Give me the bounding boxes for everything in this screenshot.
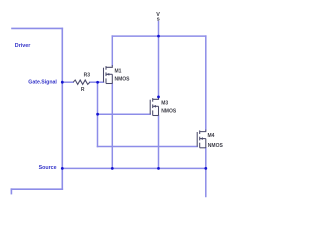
svg-text:M3: M3 [161, 100, 168, 106]
junction gate branch [96, 81, 99, 84]
wire Vs to M3 drain [158, 22, 160, 98]
junction M3 drain [157, 96, 160, 99]
svg-text:NMOS: NMOS [208, 143, 224, 149]
junction Gate_Signal [61, 81, 64, 84]
junction Vs top rail [157, 35, 160, 38]
transistor M4 [197, 130, 206, 148]
svg-text:Driver: Driver [15, 43, 31, 49]
svg-text:M1: M1 [115, 69, 122, 75]
wire M1 source [111, 84, 113, 169]
wire M3 source [158, 116, 160, 169]
wire gate branch vertical [97, 82, 99, 146]
svg-text:NMOS: NMOS [161, 109, 177, 115]
svg-text:Source: Source [39, 165, 57, 171]
wire M1 drain [111, 36, 113, 65]
wire M4 drain [205, 36, 207, 130]
transistor M3 [150, 97, 158, 115]
driver block bottom-left stub wire [10, 189, 12, 193]
wire M4 source bottom stub [205, 168, 207, 196]
bottom Source rail wire [62, 167, 206, 169]
junction M1 source rail [111, 167, 114, 170]
svg-text:R: R [81, 87, 85, 93]
junction M3 source rail [157, 167, 160, 170]
wire to M3 gate [98, 113, 151, 115]
svg-text:R3: R3 [84, 72, 91, 78]
svg-text:M4: M4 [208, 133, 215, 139]
driver block vertical wire [61, 28, 63, 189]
wire to M4 gate [98, 146, 198, 148]
resistor R1 zigzag [73, 80, 90, 84]
driver block top wire [12, 27, 62, 29]
wire M4 source [205, 148, 207, 169]
svg-text:NMOS: NMOS [115, 77, 131, 83]
svg-text:Gate.Signal: Gate.Signal [28, 80, 57, 86]
driver block bottom wire [11, 188, 62, 190]
junction M4 source rail [204, 167, 207, 170]
wire R3 to M1 gate [90, 81, 104, 83]
top rail wire [112, 35, 206, 37]
transistor M1 [104, 65, 113, 83]
wire Gate_Signal to R3 [62, 81, 73, 83]
junction Source rail left [61, 167, 64, 170]
junction M3 gate branch [96, 113, 99, 116]
svg-text:s: s [157, 16, 160, 22]
